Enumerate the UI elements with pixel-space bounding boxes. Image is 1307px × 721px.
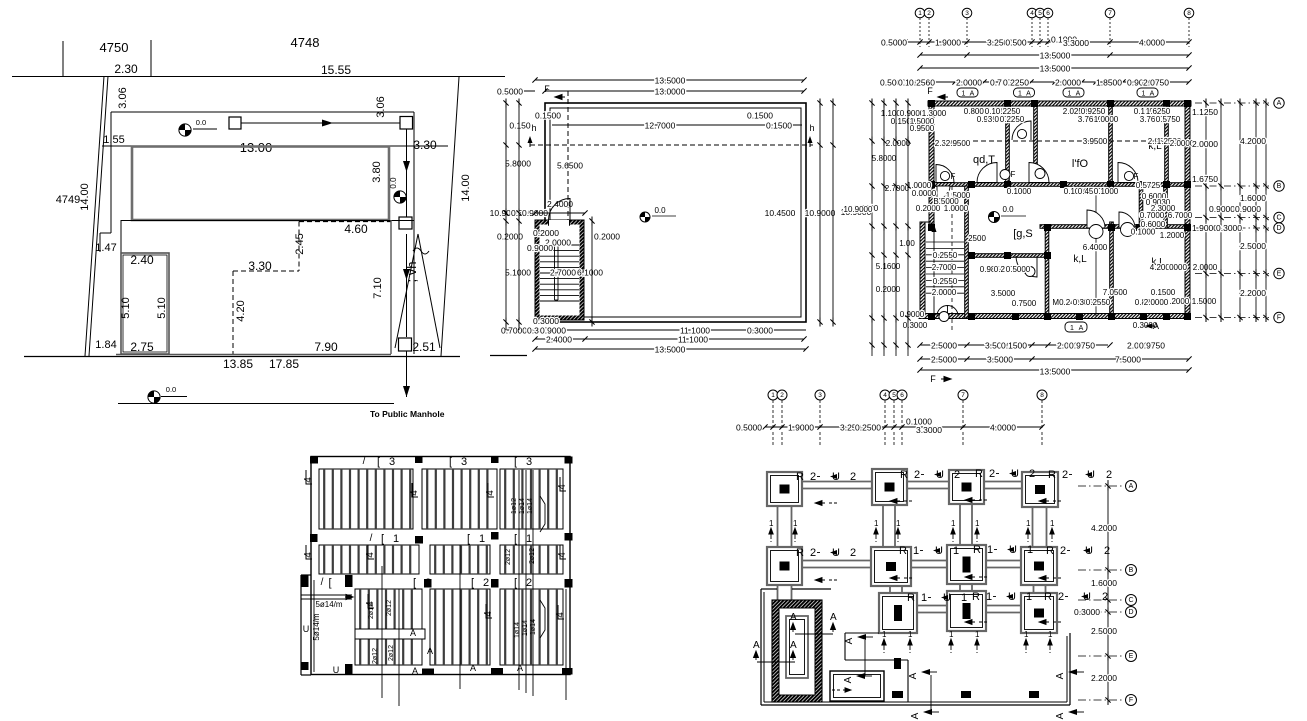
svg-text:0.2550: 0.2550	[933, 251, 958, 260]
interior wall vertical f	[1110, 222, 1114, 318]
lower area left edge	[120, 220, 122, 253]
section mark 4 at 560,545	[560, 545, 566, 559]
svg-text:6.4000: 6.4000	[1083, 243, 1108, 252]
svg-text:h: h	[809, 123, 814, 133]
svg-text:2.40: 2.40	[130, 253, 154, 267]
svg-text:C: C	[1128, 597, 1133, 604]
stair tower left wall	[920, 222, 925, 318]
door arc room2	[1029, 163, 1049, 183]
fixture circle wc1	[1089, 225, 1103, 239]
stair dashed centerline	[567, 91, 569, 322]
svg-text:0000: 0000	[1169, 263, 1187, 272]
svg-text:7.10: 7.10	[372, 277, 384, 298]
outer wall left	[929, 101, 934, 224]
svg-text:13.5000: 13.5000	[1040, 51, 1071, 61]
ground line	[24, 356, 460, 358]
svg-text:0.0: 0.0	[1002, 205, 1014, 214]
footing pad C4	[1021, 593, 1057, 633]
svg-text:7: 7	[1108, 10, 1112, 17]
interior wall stair right	[965, 186, 969, 318]
svg-text:1.84: 1.84	[95, 339, 116, 351]
svg-text:10.9000: 10.9000	[844, 205, 873, 214]
svg-text:A: A	[908, 672, 919, 679]
door arc room1	[977, 163, 997, 183]
svg-text:4: 4	[483, 611, 494, 617]
svg-text:B: B	[1277, 183, 1282, 190]
stair foundation outer	[772, 600, 822, 702]
svg-text:[: [	[471, 577, 474, 589]
left dim vertical b	[518, 103, 520, 330]
svg-text:R: R	[900, 469, 908, 481]
svg-text:3: 3	[818, 392, 822, 399]
svg-text:A: A	[412, 666, 418, 676]
svg-text:2.0000: 2.0000	[1144, 298, 1169, 307]
svg-text:1: 1	[479, 533, 485, 545]
svg-text:13.5000: 13.5000	[655, 345, 686, 355]
svg-text:D: D	[1128, 609, 1133, 616]
grid line B	[1078, 569, 1122, 571]
stair center rail	[554, 246, 556, 300]
svg-text:3.80: 3.80	[371, 161, 383, 182]
svg-text:0.2000: 0.2000	[594, 232, 620, 242]
svg-text:13.0000: 13.0000	[655, 87, 686, 97]
door arc stair low	[937, 306, 948, 317]
svg-text:4: 4	[485, 490, 496, 496]
svg-text:0.9000: 0.9000	[900, 310, 925, 319]
bottom dims row2	[535, 338, 804, 340]
svg-text:4: 4	[883, 392, 887, 399]
svg-text:0.3000: 0.3000	[747, 326, 773, 336]
beams horizontal row C	[917, 605, 947, 607]
svg-text:2: 2	[810, 471, 816, 483]
svg-text:4.0000: 4.0000	[990, 423, 1016, 433]
section mark 4 at 368,545	[368, 545, 374, 559]
svg-text:1: 1	[882, 630, 887, 639]
svg-text:0.3000: 0.3000	[1074, 607, 1100, 617]
svg-text:2: 2	[810, 547, 816, 559]
svg-text:2.0750: 2.0750	[1143, 78, 1169, 88]
svg-text:2ø12: 2ø12	[529, 548, 536, 564]
svg-text:A: A	[910, 712, 921, 719]
upper boundary of lower-left region	[761, 588, 777, 590]
svg-text:1.1250: 1.1250	[1192, 107, 1218, 117]
joist panel 7	[355, 589, 422, 629]
svg-text:6: 6	[900, 392, 904, 399]
svg-text:8: 8	[1187, 10, 1191, 17]
svg-text:0.7000: 0.7000	[1140, 211, 1165, 220]
small room inner line	[123, 255, 167, 352]
svg-text:0.5000: 0.5000	[497, 87, 523, 97]
svg-text:4: 4	[1030, 10, 1034, 17]
building outline left edge upper	[110, 112, 112, 233]
door arc entry	[937, 186, 950, 199]
svg-text:2: 2	[954, 469, 960, 481]
interior wall vertical g	[1139, 186, 1143, 228]
stair door opening	[549, 220, 570, 226]
svg-text:13.5000: 13.5000	[1040, 64, 1071, 74]
drain arrow to manhole	[406, 351, 408, 397]
svg-text:A: A	[753, 640, 760, 651]
svg-text:0.9000: 0.9000	[1209, 204, 1235, 214]
svg-text:/: /	[363, 456, 366, 467]
dashed hook arrows	[815, 501, 825, 506]
svg-text:A: A	[427, 646, 433, 656]
section mark 4 at 368,594	[368, 594, 374, 608]
svg-text:2.7000: 2.7000	[932, 263, 957, 272]
svg-text:A: A	[843, 676, 854, 683]
svg-text:7.90: 7.90	[314, 340, 338, 354]
svg-text:R: R	[973, 544, 981, 556]
door arc wc2	[1119, 212, 1135, 228]
stair tower top jog	[920, 221, 931, 223]
datum line bottom	[118, 403, 394, 405]
plot boundary right	[441, 77, 459, 356]
fixture circle room2	[1035, 169, 1045, 179]
dashed vertical 4.20	[232, 271, 234, 354]
svg-text:1: 1	[953, 545, 959, 557]
outer wall right	[1185, 101, 1190, 318]
svg-text:D: D	[1276, 225, 1281, 232]
svg-text:1: 1	[1026, 591, 1032, 603]
gate squiggle	[413, 248, 429, 254]
black columns top edge	[310, 457, 318, 464]
svg-text:[: [	[467, 533, 470, 545]
svg-text:17.85: 17.85	[269, 357, 299, 371]
svg-text:E: E	[1129, 653, 1134, 660]
svg-text:1.6000: 1.6000	[1240, 193, 1266, 203]
square marker top-right	[400, 117, 413, 130]
svg-text:7: 7	[961, 392, 965, 399]
footing pad A2	[872, 469, 907, 505]
svg-text:2: 2	[425, 577, 431, 589]
left dim verticals	[871, 103, 873, 356]
footing pad B1	[767, 547, 802, 585]
interior wall vertical d	[1165, 101, 1169, 186]
grid line C	[1078, 599, 1122, 601]
square marker bottom	[399, 338, 412, 351]
svg-text:U: U	[303, 624, 310, 634]
svg-text:4: 4	[303, 477, 314, 483]
svg-text:0.5750: 0.5750	[1156, 115, 1181, 124]
joist panel 6	[500, 545, 563, 574]
svg-text:2: 2	[1104, 545, 1110, 557]
stair foundation inner rects	[786, 616, 808, 678]
svg-text:2.75: 2.75	[130, 340, 154, 354]
section mark 4 at 306,545	[306, 545, 312, 559]
beams vertical col3	[959, 504, 961, 545]
svg-text:1ø14: 1ø14	[522, 620, 529, 636]
roof outer rectangle	[545, 103, 806, 322]
svg-text:0.5000: 0.5000	[736, 423, 762, 433]
section mark 4 at 558,605	[558, 605, 564, 619]
svg-text:4748: 4748	[291, 35, 320, 50]
svg-text:F: F	[1134, 172, 1139, 181]
fixture circle stair door	[939, 312, 949, 322]
section mark 4 at 486,604	[486, 604, 492, 618]
building outline right edge x414	[413, 112, 415, 232]
svg-text:1: 1	[1026, 519, 1031, 528]
svg-text:2: 2	[1106, 469, 1112, 481]
svg-text:5: 5	[1038, 10, 1042, 17]
svg-text:2ø12: 2ø12	[368, 603, 375, 619]
stair up arrow line	[933, 231, 935, 316]
svg-text:1: 1	[1142, 91, 1146, 98]
svg-text:R: R	[1048, 469, 1056, 481]
door arc room3	[1118, 163, 1138, 183]
svg-text:1ø14: 1ø14	[530, 619, 537, 635]
flow arrow top	[241, 122, 400, 124]
svg-text:F: F	[1011, 170, 1016, 179]
svg-text:1: 1	[949, 630, 954, 639]
joist panel 8	[355, 639, 422, 665]
svg-text:4.60: 4.60	[344, 222, 368, 236]
fixture circle room3	[1124, 171, 1133, 180]
door arc duct	[1012, 121, 1031, 140]
dashed hooks bottom	[843, 688, 851, 692]
svg-text:A: A	[1055, 712, 1066, 719]
svg-text:1.6750: 1.6750	[1192, 174, 1218, 184]
svg-text:[: [	[449, 456, 452, 468]
fixture circle wc2	[1121, 223, 1135, 237]
svg-text:2: 2	[1102, 591, 1108, 603]
svg-text:5.10: 5.10	[156, 297, 168, 318]
section mark 4 at 412,483	[412, 483, 418, 497]
svg-text:1: 1	[526, 533, 532, 545]
dim row for foundation grid	[765, 426, 1042, 428]
svg-text:0.9750: 0.9750	[1139, 341, 1165, 351]
svg-text:1: 1	[793, 519, 798, 528]
svg-text:0.1500: 0.1500	[1151, 288, 1176, 297]
svg-text:1: 1	[975, 519, 980, 528]
svg-text:5ø14/m: 5ø14/m	[315, 600, 342, 609]
svg-text:1: 1	[921, 592, 927, 604]
stair door arc	[549, 199, 571, 221]
footing pad B4	[1021, 547, 1057, 585]
svg-text:2.4000: 2.4000	[546, 335, 572, 345]
svg-text:2.0000: 2.0000	[1192, 139, 1218, 149]
joist panel 4	[319, 545, 419, 574]
svg-text:0.9000: 0.9000	[1235, 204, 1261, 214]
svg-text:C: C	[1276, 215, 1281, 222]
door arc wc1	[1087, 210, 1105, 228]
svg-text:1: 1	[951, 519, 956, 528]
svg-text:1.55: 1.55	[103, 134, 124, 146]
svg-text:qd,T: qd,T	[973, 154, 995, 166]
rebar bend symbol b	[540, 600, 545, 638]
footing pad A4	[1022, 472, 1058, 507]
svg-text:1.47: 1.47	[95, 242, 116, 254]
svg-text:A: A	[844, 637, 855, 644]
svg-text:5.10: 5.10	[120, 297, 132, 318]
svg-text:A: A	[830, 612, 837, 623]
square marker mid-right	[399, 217, 412, 229]
svg-text:15.55: 15.55	[321, 63, 351, 77]
svg-text:0.1500: 0.1500	[535, 111, 561, 121]
joist panel 9	[430, 589, 490, 665]
svg-text:2: 2	[1058, 591, 1064, 603]
interior wall vertical a	[1006, 101, 1010, 186]
slab outer rectangle	[311, 457, 570, 675]
svg-text:1: 1	[913, 545, 919, 557]
svg-text:R: R	[1044, 591, 1052, 603]
footing pad C2	[879, 593, 917, 633]
svg-text:0.2000: 0.2000	[533, 228, 559, 238]
svg-text:[: [	[514, 533, 517, 545]
small room outline	[121, 253, 169, 354]
svg-text:2: 2	[1029, 468, 1035, 480]
svg-text:0.2550: 0.2550	[1086, 298, 1111, 307]
svg-text:3.06: 3.06	[117, 87, 129, 108]
svg-text:1ø12: 1ø12	[511, 498, 518, 514]
svg-text:10.4500: 10.4500	[765, 208, 796, 218]
svg-text:3.5000: 3.5000	[987, 355, 1013, 365]
svg-text:1.9000: 1.9000	[935, 38, 961, 48]
svg-text:2.0000: 2.0000	[956, 78, 982, 88]
svg-text:2.45: 2.45	[294, 233, 306, 254]
svg-text:0.500: 0.500	[1005, 38, 1027, 48]
svg-text:[g,S: [g,S	[1013, 228, 1033, 240]
svg-text:2.9500: 2.9500	[946, 139, 971, 148]
svg-text:5ø14/m: 5ø14/m	[312, 613, 321, 640]
svg-text:2.7000: 2.7000	[550, 268, 576, 278]
interior wall vertical c	[1109, 101, 1113, 186]
drain arrow mid	[406, 234, 408, 337]
thin room divider line	[1095, 186, 1097, 316]
footing pad A3	[949, 470, 984, 504]
small pad bottom middle	[830, 671, 884, 701]
svg-text:F: F	[951, 172, 956, 181]
right grid bubbles A-F	[1195, 102, 1269, 104]
building bottom edge of thick rect thin ext	[121, 220, 414, 222]
survey level marker top	[179, 124, 191, 136]
svg-text:0.9500: 0.9500	[910, 124, 935, 133]
right dim verticals	[1205, 103, 1207, 318]
plot boundary left outer	[85, 76, 104, 356]
svg-text:F: F	[930, 374, 936, 384]
lot divider line	[150, 40, 152, 76]
svg-text:F: F	[544, 84, 550, 94]
svg-text:A: A	[790, 612, 797, 623]
dim row 4	[905, 81, 1189, 83]
drain arrow upper	[406, 129, 408, 217]
svg-text:2.5000: 2.5000	[931, 341, 957, 351]
grid line E	[1078, 655, 1122, 657]
svg-text:4: 4	[555, 612, 566, 618]
survey level marker right	[394, 191, 406, 203]
interior wall vertical e	[1045, 228, 1049, 318]
svg-text:1: 1	[1027, 544, 1033, 556]
fixture circle left	[940, 171, 949, 180]
interior wall room gS bottom	[970, 254, 1047, 258]
grid line D	[1078, 611, 1122, 613]
dim row 13.5000 b	[920, 67, 1189, 69]
svg-text:3.3000: 3.3000	[916, 425, 942, 435]
section mark 4 at 560,477	[560, 477, 566, 491]
svg-text:A: A	[1055, 672, 1066, 679]
svg-text:7.0500: 7.0500	[1103, 288, 1128, 297]
svg-text:0.3000: 0.3000	[1216, 223, 1242, 233]
svg-text:4750: 4750	[100, 40, 129, 55]
svg-text:2: 2	[927, 10, 931, 17]
stair walls	[535, 220, 584, 320]
svg-text:3.30: 3.30	[248, 259, 272, 273]
outer wall bottom	[919, 314, 1190, 319]
svg-text:[: [	[514, 456, 517, 468]
svg-text:To Public Manhole: To Public Manhole	[370, 409, 445, 419]
svg-text:A: A	[1026, 91, 1031, 98]
svg-text:5.6500: 5.6500	[557, 161, 583, 171]
svg-text:3: 3	[461, 456, 467, 468]
svg-text:2.5000: 2.5000	[1091, 626, 1117, 636]
svg-text:11.1000: 11.1000	[678, 335, 708, 345]
roof level marker	[640, 212, 650, 222]
svg-text:R: R	[907, 592, 915, 604]
svg-text:k,L: k,L	[1073, 254, 1087, 265]
beams vertical col4	[1032, 507, 1034, 547]
svg-text:0.0: 0.0	[389, 177, 398, 189]
footing pad B3	[947, 545, 986, 584]
svg-text:A: A	[1150, 91, 1155, 98]
step 1.47 jog	[100, 232, 111, 234]
svg-text:U: U	[333, 665, 340, 675]
svg-text:E: E	[1277, 271, 1282, 278]
svg-text:4749: 4749	[56, 194, 80, 206]
svg-text:4: 4	[303, 552, 314, 558]
svg-text:0.1500: 0.1500	[1001, 341, 1027, 351]
svg-text:12.7000: 12.7000	[645, 121, 676, 131]
svg-text:[: [	[377, 456, 380, 468]
svg-text:13.85: 13.85	[223, 357, 253, 371]
svg-text:A: A	[1079, 325, 1084, 332]
fixture circle duct	[1017, 129, 1026, 138]
svg-text:4: 4	[557, 552, 568, 558]
road line top	[12, 76, 505, 78]
dim line 12.7000	[552, 124, 802, 126]
svg-text:R: R	[975, 468, 983, 480]
svg-text:1ø14: 1ø14	[519, 498, 526, 514]
interior wall lower horizontal right	[1040, 225, 1190, 229]
svg-text:1.9000: 1.9000	[788, 423, 814, 433]
svg-text:R: R	[796, 547, 804, 559]
svg-text:2: 2	[914, 469, 920, 481]
svg-text:/: /	[370, 533, 373, 544]
svg-text:1: 1	[961, 592, 967, 604]
lower area right edge x391	[390, 220, 392, 354]
stair treads plan	[926, 241, 964, 243]
svg-text:0.150: 0.150	[509, 121, 531, 131]
svg-text:2ø12: 2ø12	[372, 648, 379, 664]
svg-text:2: 2	[483, 577, 489, 589]
svg-text:1: 1	[769, 519, 774, 528]
svg-text:0.1000: 0.1000	[1094, 187, 1119, 196]
svg-text:3.06: 3.06	[375, 96, 387, 117]
dim line 13.0000	[545, 90, 804, 92]
svg-text:5.8000: 5.8000	[505, 159, 531, 169]
gate triangle right leg	[418, 234, 440, 348]
svg-text:1: 1	[1018, 91, 1022, 98]
beams vertical col1	[777, 506, 779, 547]
boundary lower region	[760, 589, 762, 705]
svg-text:0.3000: 0.3000	[533, 316, 559, 326]
svg-text:1: 1	[393, 533, 399, 545]
svg-text:1.5000: 1.5000	[1192, 297, 1217, 306]
svg-text:2ø12: 2ø12	[505, 549, 512, 565]
svg-text:4: 4	[409, 490, 420, 496]
svg-text:B.5000: B.5000	[933, 197, 959, 206]
svg-text:1: 1	[986, 591, 992, 603]
svg-text:0.5000: 0.5000	[881, 38, 907, 48]
svg-text:13.5000: 13.5000	[655, 76, 686, 86]
